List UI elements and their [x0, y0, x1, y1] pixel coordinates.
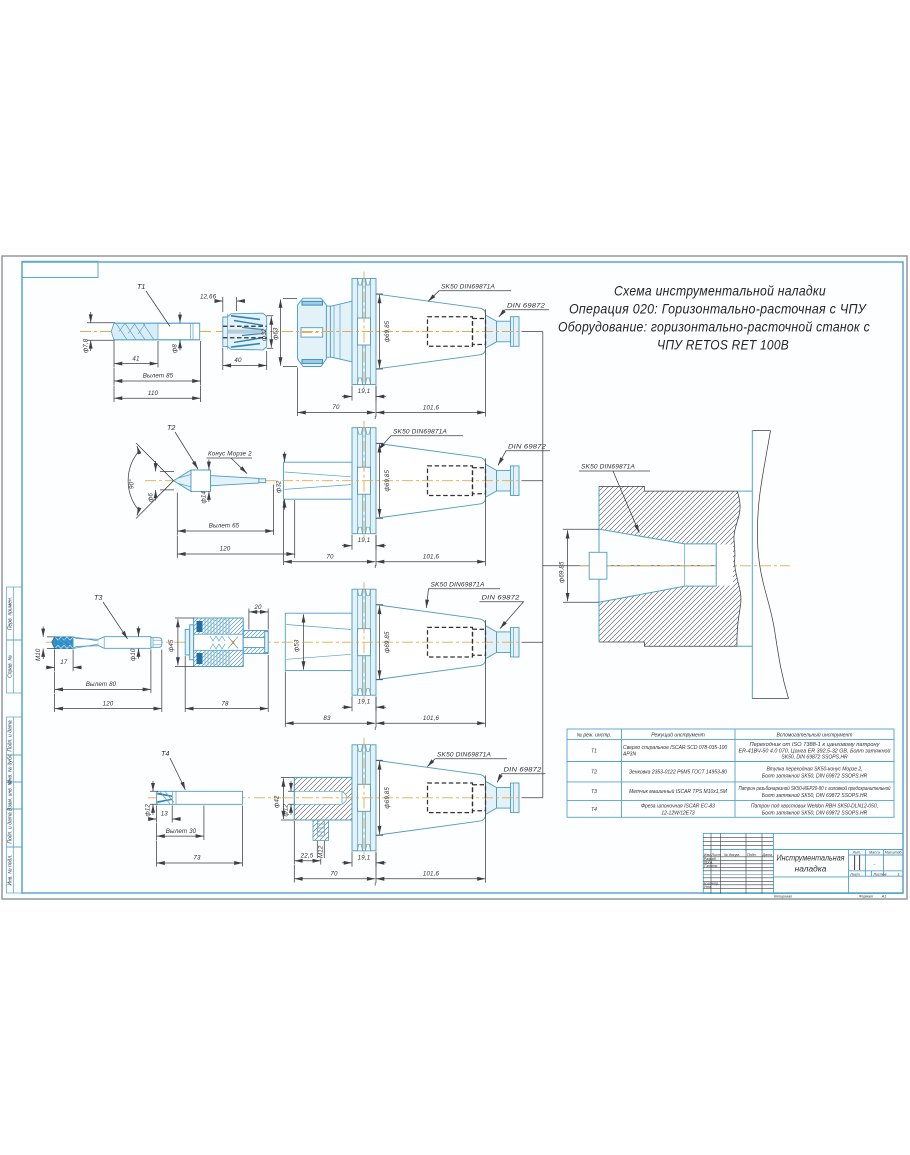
- svg-text:Оборудование: горизонтально-ра: Оборудование: горизонтально-расточной ст…: [558, 320, 870, 335]
- svg-text:Конус Морзе 2: Конус Морзе 2: [208, 451, 252, 458]
- svg-text:SK50, DIN 69872 SSOPS.HR: SK50, DIN 69872 SSOPS.HR: [781, 755, 848, 761]
- svg-text:Т.контр.: Т.контр.: [704, 864, 719, 868]
- dim ф6: [148, 461, 175, 502]
- centerline T4: [148, 797, 281, 799]
- centerline workpiece: [580, 565, 790, 567]
- holder3 cylinder: [285, 613, 352, 670]
- svg-text:ф32: ф32: [276, 480, 283, 493]
- label SK50 DIN69871A workpiece: [579, 464, 650, 533]
- svg-text:Режущий инструмент: Режущий инструмент: [651, 732, 705, 739]
- svg-text:Вылет 30: Вылет 30: [166, 828, 197, 835]
- svg-text:17: 17: [60, 659, 68, 666]
- dim ф63 nut: [273, 299, 298, 367]
- spindle face connection lines: [737, 491, 752, 646]
- dim 17: [46, 650, 82, 672]
- svg-text:№ докум.: № докум.: [724, 853, 740, 857]
- svg-text:Вылет 65: Вылет 65: [209, 523, 240, 530]
- svg-text:Лит.: Лит.: [852, 851, 861, 855]
- connector bus to workpiece: [543, 565, 716, 567]
- svg-text:12-12W/12Е73: 12-12W/12Е73: [661, 811, 695, 817]
- dim 120 row2: [177, 500, 294, 558]
- dim ф7,8: [83, 312, 116, 353]
- svg-text:Справ. №: Справ. №: [8, 655, 14, 678]
- svg-text:АР3N: АР3N: [622, 752, 636, 758]
- svg-text:ER-41ВЧ-50 4.0 070, Цанга ER 3: ER-41ВЧ-50 4.0 070, Цанга ER 392,5-32 GB…: [739, 747, 891, 754]
- left margin stamp column: group 2 (Подп. и дата / Инв №): [7, 717, 23, 893]
- svg-text:Вылет 85: Вылет 85: [143, 373, 174, 380]
- svg-text:ф12: ф12: [283, 804, 290, 817]
- centerline T3: [46, 641, 279, 643]
- dim 78: [185, 655, 268, 712]
- drill T1 body: [111, 323, 199, 340]
- dim Вылет 80: [55, 650, 151, 694]
- svg-text:Инв. № подл.: Инв. № подл.: [8, 854, 14, 885]
- sheet background: [2, 256, 907, 899]
- svg-text:ф6: ф6: [148, 493, 155, 502]
- svg-text:Дата: Дата: [762, 853, 772, 857]
- svg-text:ф69,85: ф69,85: [559, 561, 566, 583]
- label SK50 DIN69871A row1: [428, 284, 511, 302]
- dim ф14: [201, 460, 209, 504]
- svg-text:Т3: Т3: [94, 593, 102, 602]
- svg-text:Инв. № дубл.: Инв. № дубл.: [8, 753, 14, 784]
- SK50 holder row1: [282, 272, 522, 417]
- svg-text:DIN 69872: DIN 69872: [482, 595, 520, 602]
- svg-text:Сверло спиральное ISCAR SCD 07: Сверло спиральное ISCAR SCD 078-035-100: [623, 745, 727, 751]
- svg-text:ф7,8: ф7,8: [83, 338, 90, 353]
- svg-text:Патрон резьбонарезной SK50-ИЕР: Патрон резьбонарезной SK50-ИЕР20-90 с го…: [739, 785, 891, 792]
- svg-text:Т2: Т2: [167, 423, 175, 432]
- svg-text:13: 13: [161, 811, 169, 818]
- svg-text:DIN 69872: DIN 69872: [507, 303, 545, 310]
- svg-text:наладка: наладка: [795, 864, 827, 874]
- dim ф8: [172, 312, 181, 353]
- svg-text:Болт затяжной SK50, DIN 69872: Болт затяжной SK50, DIN 69872 SSOPS.HR: [762, 792, 868, 799]
- dim 70 row2: [284, 501, 376, 569]
- dim 13: [148, 806, 181, 823]
- drawing border frame: [22, 262, 903, 893]
- corner stamp box top-left: [22, 261, 98, 277]
- svg-text:М12: М12: [318, 845, 325, 858]
- svg-text:Листов: Листов: [872, 872, 886, 876]
- left margin stamp column: group 1 (Перв. примен. / Справ. №): [7, 587, 23, 693]
- dim 40: [223, 348, 267, 371]
- svg-text:70: 70: [330, 871, 338, 878]
- svg-text:SK50 DIN69871A: SK50 DIN69871A: [437, 752, 491, 759]
- svg-text:90°: 90°: [129, 479, 136, 489]
- svg-text:Подп.: Подп.: [747, 853, 757, 857]
- dim ф42: [274, 777, 295, 820]
- svg-text:Т4: Т4: [591, 807, 597, 813]
- dim Вылет 65 row2: [177, 485, 273, 536]
- label T2: [167, 423, 198, 469]
- svg-text:SK50 DIN69871A: SK50 DIN69871A: [431, 582, 485, 589]
- svg-text:41: 41: [132, 355, 139, 362]
- svg-text:70: 70: [326, 553, 334, 560]
- label T1: [137, 282, 170, 327]
- svg-text:78: 78: [221, 700, 229, 707]
- bottom margin texts: [774, 894, 886, 898]
- svg-text:12,66: 12,66: [200, 294, 217, 301]
- tap T3: [52, 637, 162, 649]
- svg-text:SK50 DIN69871A: SK50 DIN69871A: [393, 429, 447, 436]
- label SK50 DIN69871A row3: [426, 582, 500, 609]
- svg-text:SK50 DIN69871A: SK50 DIN69871A: [441, 284, 495, 291]
- holder2 morse sleeve cylinder: [284, 462, 353, 499]
- dim ф32 collet: [261, 316, 274, 348]
- svg-text:DIN 69872: DIN 69872: [504, 767, 542, 774]
- svg-text:Т1: Т1: [137, 282, 145, 291]
- table header text: [577, 732, 853, 739]
- stud pocket square: [589, 552, 607, 579]
- svg-text:Болт затяжной SK50, DIN 69872: Болт затяжной SK50, DIN 69872 SSOPS.HR: [762, 773, 868, 780]
- label DIN 69872 row2: [498, 444, 550, 466]
- svg-text:Т2: Т2: [591, 770, 597, 776]
- svg-text:Болт затяжной SK50, DIN 69872: Болт затяжной SK50, DIN 69872 SSOPS.HR: [762, 810, 868, 817]
- svg-text:DIN 69872: DIN 69872: [508, 444, 546, 451]
- svg-text:Копировал: Копировал: [774, 894, 792, 898]
- svg-text:Формат: Формат: [859, 894, 873, 898]
- SK50 holder row4: [282, 738, 522, 883]
- svg-text:Переходник от ISO 7388-1 к цан: Переходник от ISO 7388-1 к цанговому пат…: [750, 742, 881, 748]
- label SK50 DIN69871A row4: [427, 752, 507, 767]
- dim Вылет 85: [114, 341, 201, 385]
- svg-text:Инструментальная: Инструментальная: [777, 853, 845, 863]
- spindle face plate column: [752, 431, 788, 699]
- collet ER: [223, 313, 267, 350]
- connector row4 stud to bus: [522, 797, 543, 799]
- svg-text:Перв. примен.: Перв. примен.: [8, 597, 14, 630]
- tapping chuck body: [185, 618, 268, 667]
- dim ф10: [130, 626, 139, 661]
- spindle block hatched: [599, 486, 741, 646]
- svg-text:Т1: Т1: [591, 749, 597, 755]
- label T4: [161, 749, 185, 790]
- svg-text:22,5: 22,5: [300, 853, 314, 860]
- SK50 holder row2: [282, 421, 522, 566]
- svg-text:ф63: ф63: [273, 327, 280, 340]
- svg-text:20: 20: [253, 604, 262, 611]
- dim 120 row3: [55, 650, 162, 713]
- label DIN 69872 row1: [499, 303, 549, 317]
- svg-text:ф8: ф8: [172, 344, 179, 353]
- title block small labels: [704, 853, 772, 889]
- svg-text:ф14: ф14: [201, 491, 208, 504]
- svg-text:Фреза шпоночная ISCAR EC-83: Фреза шпоночная ISCAR EC-83: [641, 804, 715, 810]
- svg-text:№ реж. инстр.: № реж. инстр.: [577, 733, 612, 739]
- svg-text:Подп. и дата: Подп. и дата: [8, 720, 14, 752]
- dim М12: [317, 841, 324, 858]
- svg-text:Утв.: Утв.: [704, 885, 712, 889]
- svg-text:ф12: ф12: [145, 804, 152, 817]
- table row T4: [591, 804, 878, 817]
- svg-text:ф45: ф45: [168, 639, 175, 652]
- label T3: [94, 593, 128, 639]
- dim 110: [114, 386, 201, 403]
- svg-text:Лист: Лист: [849, 872, 859, 876]
- svg-text:40: 40: [234, 357, 242, 364]
- dim 83 row3: [285, 672, 375, 731]
- title block lit/massa/masshtab section: [849, 850, 904, 894]
- connector row3 stud to bus: [522, 641, 543, 643]
- dim 12,66: [200, 294, 245, 313]
- svg-text:Втулка переходная SK50-конус М: Втулка переходная SK50-конус Морзе 2,: [766, 767, 862, 773]
- dim 41: [114, 341, 158, 368]
- svg-text:Вылет 80: Вылет 80: [86, 681, 117, 688]
- svg-text:Подп. и дата: Подп. и дата: [8, 812, 14, 844]
- centerline row1 assembly: [216, 331, 279, 333]
- svg-text:Т3: Т3: [591, 789, 597, 795]
- dim Вылет 30: [157, 806, 204, 841]
- table row T3: [591, 785, 891, 799]
- svg-text:ф32: ф32: [261, 328, 268, 341]
- dim 70 row1: [298, 368, 376, 420]
- svg-text:110: 110: [148, 390, 159, 397]
- dim 22,5: [294, 821, 321, 865]
- centerline T1 drill: [80, 331, 212, 333]
- dim ф32 row2: [276, 452, 285, 510]
- dim 70 row4: [294, 865, 375, 886]
- holder1 collet nut: [298, 298, 327, 366]
- svg-text:Метчик машинный ISCAR TPS М10х: Метчик машинный ISCAR TPS М10х1,5М: [629, 788, 728, 795]
- connector row2 stud to bus: [522, 480, 543, 482]
- svg-text:70: 70: [332, 404, 340, 411]
- label Конус Морзе 2: [207, 451, 253, 474]
- label DIN 69872 row4: [497, 767, 545, 783]
- svg-text:120: 120: [103, 700, 114, 707]
- svg-text:Т4: Т4: [161, 749, 169, 758]
- Weldon holder block: [294, 777, 352, 840]
- svg-text:ЧПУ RETOS RET 100В: ЧПУ RETOS RET 100В: [657, 338, 789, 353]
- svg-text:120: 120: [220, 546, 231, 553]
- 90 degree angle construction: [128, 443, 173, 519]
- table row T2: [591, 767, 868, 780]
- end mill T4: [157, 791, 243, 804]
- svg-text:1: 1: [898, 872, 900, 876]
- svg-text:М10: М10: [35, 648, 42, 661]
- countersink T2: [174, 470, 266, 491]
- svg-text:Вспомогательный инструмент: Вспомогательный инструмент: [777, 732, 853, 739]
- svg-text:Взам. инв. №: Взам. инв. №: [8, 779, 14, 811]
- svg-text:ф53: ф53: [294, 639, 301, 652]
- table row T1: [591, 742, 891, 761]
- svg-text:Масштаб: Масштаб: [885, 851, 903, 855]
- svg-text:73: 73: [193, 855, 201, 862]
- svg-text:ф10: ф10: [130, 648, 137, 661]
- dim 20 chuck: [249, 604, 268, 630]
- svg-text:ф42: ф42: [274, 795, 281, 808]
- label SK50 DIN69871A row2: [378, 429, 463, 451]
- svg-text:83: 83: [323, 715, 331, 722]
- title block name cell: [774, 853, 849, 877]
- dim ф12 bore: [283, 781, 295, 817]
- dim ф53: [294, 614, 304, 669]
- connector bus vertical: [542, 332, 544, 798]
- centerline T2: [145, 480, 278, 482]
- dim ф69,85 workpiece: [559, 529, 600, 602]
- svg-text:А1: А1: [881, 894, 886, 898]
- holder1 collar and body: [326, 301, 352, 362]
- dim ф12 mill: [145, 781, 159, 817]
- svg-text:Схема инструментальной наладки: Схема инструментальной наладки: [614, 284, 826, 299]
- svg-text:Операция 020: Горизонтально-ра: Операция 020: Горизонтально-расточная с …: [569, 302, 867, 317]
- set screw boss: [313, 820, 329, 840]
- dim M10: [35, 627, 56, 662]
- svg-text:Зенковка 2353-0122 Р6М5 ГОСТ 1: Зенковка 2353-0122 Р6М5 ГОСТ 14953-80: [629, 770, 727, 776]
- svg-text:Патрон под хвостовик Weldon RB: Патрон под хвостовик Weldon RBH SK50-DLN…: [751, 804, 878, 810]
- label DIN 69872 row3: [480, 595, 524, 629]
- dim ф45: [168, 618, 194, 667]
- svg-text:Масса: Масса: [869, 851, 880, 855]
- dim 73: [157, 806, 243, 867]
- svg-text:SK50 DIN69871A: SK50 DIN69871A: [581, 464, 635, 471]
- connector row1 stud to bus: [522, 331, 543, 333]
- SK50 holder row3: [282, 582, 522, 727]
